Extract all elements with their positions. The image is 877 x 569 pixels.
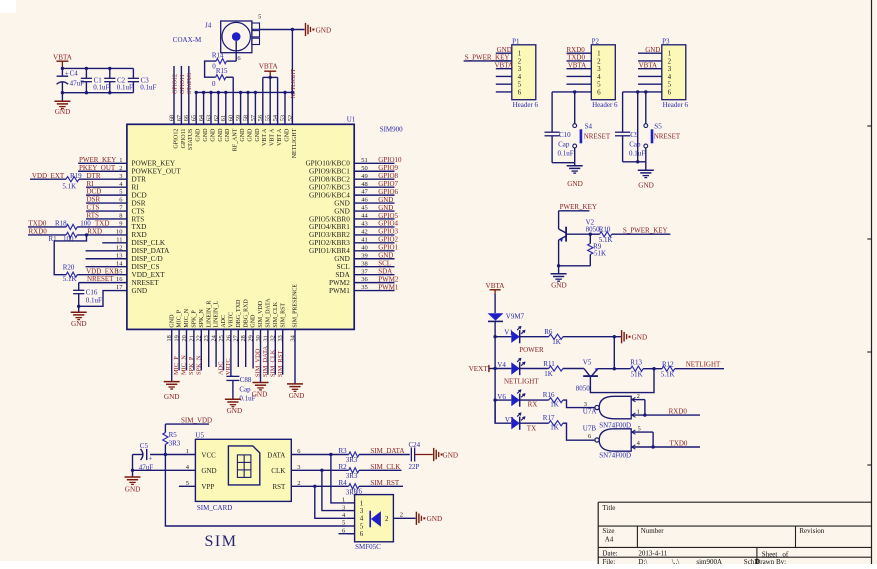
- svg-text:R2: R2: [339, 463, 348, 471]
- wire R16 to U7A output: [563, 400, 595, 408]
- wire emitter to ground rail: [613, 337, 615, 369]
- svg-text:GND: GND: [632, 334, 648, 342]
- capacitor C10 Cap 0.1uF: [545, 131, 560, 133]
- junction: [77, 305, 80, 308]
- ground pin18: [164, 381, 180, 383]
- capacitor C2 0.1uF: [109, 68, 111, 78]
- svg-text:Header 6: Header 6: [592, 101, 618, 109]
- svg-text:6: 6: [597, 88, 601, 96]
- wire J4 centre pin: [235, 41, 237, 61]
- resistor R20 5.1K to VDD_EXT pin15: [66, 272, 77, 277]
- ground below C88: [225, 398, 241, 400]
- resistor R5 3R3: [163, 433, 168, 445]
- svg-text:6: 6: [668, 88, 672, 96]
- svg-text:2: 2: [297, 480, 300, 487]
- svg-text:NRESET: NRESET: [584, 133, 611, 141]
- svg-text:GND: GND: [201, 467, 216, 475]
- junctions on GND bus: [195, 91, 198, 94]
- svg-text:0.1uF: 0.1uF: [140, 84, 156, 92]
- ground below C4: [61, 93, 63, 101]
- svg-text:V5: V5: [583, 359, 592, 367]
- ground below S4: [574, 163, 576, 166]
- svg-text:VEXT: VEXT: [469, 365, 489, 373]
- svg-text:1K: 1K: [544, 370, 553, 378]
- wire R9 to emitter: [559, 265, 591, 267]
- svg-text:SIM_RST: SIM_RST: [280, 303, 286, 328]
- svg-text:ADC: ADC: [221, 315, 227, 328]
- svg-text:Drawn By:: Drawn By:: [755, 558, 786, 564]
- svg-text:DTR: DTR: [132, 176, 147, 184]
- svg-text:RXD0: RXD0: [29, 227, 48, 235]
- svg-text:VBTA: VBTA: [495, 61, 514, 69]
- svg-text:SCL: SCL: [378, 260, 391, 268]
- svg-text:GPIO3: GPIO3: [378, 228, 398, 236]
- svg-text:GPIO5: GPIO5: [378, 212, 398, 220]
- svg-text:2: 2: [385, 515, 389, 523]
- svg-text:VDD_EXT: VDD_EXT: [132, 271, 166, 279]
- wire RF_ANT column pin 60: [232, 77, 234, 124]
- svg-text:NETLIGHT: NETLIGHT: [291, 69, 297, 99]
- svg-text:R14: R14: [212, 52, 224, 60]
- svg-text:PWM1: PWM1: [329, 287, 350, 295]
- svg-text:3R3: 3R3: [346, 456, 358, 464]
- wire to C10: [551, 92, 553, 132]
- svg-text:POWER: POWER: [519, 346, 544, 354]
- wire pin33 SIM_RST: [282, 329, 284, 374]
- svg-text:R20: R20: [63, 263, 75, 271]
- svg-text:DISP_C/D: DISP_C/D: [132, 255, 163, 263]
- svg-text:R4: R4: [339, 479, 348, 487]
- svg-text:STATUS: STATUS: [188, 129, 194, 151]
- ground pin34: [287, 383, 303, 385]
- svg-text:GND: GND: [378, 196, 393, 204]
- svg-text:C5: C5: [140, 442, 149, 450]
- svg-text:U7B: U7B: [583, 424, 597, 432]
- svg-text:Header 6: Header 6: [663, 101, 689, 109]
- svg-text:C10: C10: [559, 131, 571, 139]
- svg-text:DBG_TXD: DBG_TXD: [236, 299, 242, 328]
- svg-text:GPIO8/KBC2: GPIO8/KBC2: [309, 176, 350, 184]
- svg-text:GND: GND: [55, 108, 71, 116]
- SIM card holder U5: [195, 439, 291, 501]
- svg-text:GND: GND: [240, 128, 246, 142]
- resistor R2 3R3 SIM_CLK: [349, 468, 359, 473]
- wire C9 S5 bottom rail: [623, 161, 646, 163]
- svg-text:3: 3: [342, 504, 345, 511]
- svg-text:GND: GND: [252, 391, 268, 399]
- svg-text:GPIO2: GPIO2: [378, 236, 398, 244]
- ground below V2: [558, 266, 560, 274]
- power ground after C24: [433, 448, 435, 461]
- svg-text:SPK_P: SPK_P: [192, 310, 198, 328]
- wire R17 to U7B output: [563, 423, 595, 440]
- svg-text:RXD: RXD: [132, 231, 147, 239]
- svg-text:GPIO1: GPIO1: [378, 244, 398, 252]
- svg-text:GND: GND: [334, 255, 350, 263]
- svg-text:+: +: [65, 69, 69, 77]
- svg-text:GPIO2/KBR3: GPIO2/KBR3: [309, 239, 350, 247]
- wire GPIO12 pin 68 stub: [173, 66, 175, 124]
- wire pin25 ADC: [223, 329, 225, 370]
- junction: [636, 160, 639, 163]
- svg-text:Revision: Revision: [799, 527, 824, 535]
- svg-text:\..\: \..\: [672, 558, 679, 564]
- svg-text:47uF: 47uF: [70, 80, 85, 88]
- svg-text:CLK: CLK: [271, 467, 285, 475]
- resistor R17 1K: [520, 422, 549, 424]
- svg-text:TX: TX: [527, 424, 536, 432]
- svg-text:STATUS: STATUS: [187, 72, 193, 94]
- svg-text:TXD0: TXD0: [670, 439, 688, 447]
- wire pin23 stub: [208, 329, 210, 367]
- svg-text:3R3: 3R3: [169, 440, 181, 448]
- svg-text:V7: V7: [505, 416, 514, 424]
- svg-text:SN74F00D: SN74F00D: [599, 421, 631, 429]
- wire pin5 to pin4: [652, 432, 654, 447]
- wire SIM_VDD down to R5: [164, 424, 166, 432]
- svg-text:GND: GND: [251, 314, 257, 328]
- svg-text:POWER_KEY: POWER_KEY: [132, 160, 176, 168]
- junction: [589, 233, 592, 236]
- svg-text:SIM_RST: SIM_RST: [277, 351, 284, 377]
- resistor R12 5.1K: [662, 366, 675, 371]
- wire top GND pin stubs: [195, 92, 197, 124]
- svg-text:0.1uF: 0.1uF: [117, 84, 133, 92]
- svg-text:DISP_CS: DISP_CS: [132, 263, 160, 271]
- LED V4 NETLIGHT: [495, 368, 511, 370]
- wire DATA row pin6: [291, 454, 348, 456]
- svg-text:3R3: 3R3: [346, 472, 358, 480]
- svg-text:51K: 51K: [631, 370, 643, 378]
- svg-text:DISP_CLK: DISP_CLK: [132, 239, 166, 247]
- svg-text:DCD: DCD: [87, 188, 102, 196]
- svg-text:5: 5: [638, 425, 641, 432]
- svg-text:U7A: U7A: [583, 408, 597, 416]
- pin7 CTS stub: [86, 210, 127, 212]
- svg-text:P3: P3: [662, 37, 670, 45]
- resistor R6 1K: [520, 336, 549, 338]
- svg-text:NETLIGHT: NETLIGHT: [686, 360, 721, 368]
- junction: [320, 469, 323, 472]
- U6 pin2 wire to ground: [393, 517, 415, 519]
- wire pin17 GND: [79, 291, 127, 307]
- svg-text:2013-4-11: 2013-4-11: [638, 550, 667, 558]
- svg-text:LINEIN_L: LINEIN_L: [214, 301, 220, 328]
- net label TXD0 and resistor R18 100 pin9 TXD: [28, 226, 66, 228]
- svg-text:GND: GND: [203, 128, 209, 142]
- junction: [313, 485, 316, 488]
- svg-text:SPK_N: SPK_N: [199, 309, 205, 328]
- wire pin31 SIM_DATA: [267, 329, 269, 374]
- svg-text:SIM_DATA: SIM_DATA: [266, 298, 272, 328]
- svg-text:SIM_VDD: SIM_VDD: [181, 416, 212, 424]
- junction: [573, 90, 576, 93]
- svg-text:PWM2: PWM2: [329, 279, 350, 287]
- svg-text:MIC_P: MIC_P: [177, 309, 183, 327]
- svg-text:VDD_EXT: VDD_EXT: [32, 172, 65, 180]
- pin11 DISP_CLK stub: [102, 242, 127, 244]
- svg-text:5.1K: 5.1K: [62, 183, 76, 191]
- wire RXD to R20: [54, 235, 86, 275]
- junction: [61, 91, 64, 94]
- svg-text:S_PWER_KEY: S_PWER_KEY: [623, 226, 668, 234]
- net label S_PWER_KEY on P1.2: [464, 60, 512, 62]
- svg-text:SPK_N: SPK_N: [195, 355, 202, 375]
- svg-text:TXD: TXD: [95, 220, 109, 228]
- SIM card icon: [228, 446, 259, 485]
- pin8 RTS stub: [86, 218, 127, 220]
- TVS array U6 SMF05C: [355, 495, 394, 542]
- svg-text:RXD0: RXD0: [669, 407, 688, 415]
- wire pin32 SIM_CLK: [274, 329, 276, 374]
- svg-text:GND: GND: [71, 320, 87, 328]
- junction: [164, 453, 167, 456]
- U1 right pin wires: [354, 162, 394, 164]
- svg-text:SIM_DATA: SIM_DATA: [370, 447, 404, 455]
- switch S5 NRESET: [645, 92, 647, 124]
- svg-text:SIM_RST: SIM_RST: [370, 479, 400, 487]
- net label NRESET pin16: [79, 282, 127, 284]
- pin5 DCD stub: [86, 194, 127, 196]
- svg-text:GPIO10: GPIO10: [378, 156, 402, 164]
- svg-text:5: 5: [186, 480, 189, 487]
- power ground after U6: [415, 512, 417, 525]
- wire NRESET to C16: [78, 283, 80, 291]
- svg-text:1K: 1K: [552, 338, 561, 346]
- capacitor C1 0.1uF: [85, 68, 87, 78]
- capacitor C88 Cap 0.1uF: [226, 375, 239, 377]
- U7A input pin2 wire: [631, 399, 645, 401]
- resistor R16 1K: [520, 399, 549, 401]
- pin12 DISP_DATA stub: [86, 250, 127, 252]
- svg-text:GND: GND: [378, 204, 393, 212]
- wire pin29 stub: [252, 329, 254, 368]
- svg-text:V6: V6: [497, 393, 506, 401]
- wire pin19 MIC_P: [178, 329, 180, 370]
- svg-text:R12: R12: [662, 360, 674, 368]
- U7B input pin5 wire: [631, 431, 653, 433]
- wire VBT_A rail: [263, 76, 278, 78]
- svg-text:VRTC: VRTC: [225, 358, 232, 375]
- svg-text:GND: GND: [334, 207, 350, 215]
- svg-text:C16: C16: [86, 288, 98, 296]
- svg-text:DSR: DSR: [87, 196, 101, 204]
- svg-text:6: 6: [518, 88, 522, 96]
- wire VCC row: [133, 454, 144, 456]
- svg-text:MIC_N: MIC_N: [184, 308, 190, 327]
- svg-text:Number: Number: [641, 527, 665, 535]
- svg-text:DTR: DTR: [87, 172, 101, 180]
- svg-text:Size: Size: [602, 527, 614, 535]
- svg-text:R10: R10: [599, 226, 611, 234]
- svg-text:SIM_DATA: SIM_DATA: [262, 346, 269, 377]
- svg-text:R19: R19: [70, 172, 82, 180]
- svg-text:Cap: Cap: [558, 141, 570, 149]
- P1 pin stubs: [496, 52, 512, 54]
- resistor R13 51K: [631, 366, 644, 371]
- svg-text:SIM900: SIM900: [380, 125, 403, 133]
- wire pin22 SPK_N: [200, 329, 202, 370]
- svg-text:GND: GND: [316, 26, 332, 34]
- svg-text:PWM1: PWM1: [378, 283, 399, 291]
- svg-text:PWER_KEY: PWER_KEY: [560, 203, 597, 211]
- wire J4 shield to ground: [260, 29, 305, 31]
- svg-text:VBTA: VBTA: [53, 53, 73, 61]
- wire parallel branch: [637, 92, 639, 162]
- resistor R10 5.1K: [590, 233, 599, 235]
- ground below S5: [645, 162, 647, 170]
- svg-text:GND: GND: [164, 393, 180, 401]
- svg-text:0.1uF: 0.1uF: [558, 149, 574, 157]
- svg-text:RTS: RTS: [132, 215, 145, 223]
- pin13 DISP_C/D stub: [86, 258, 127, 260]
- svg-text:TXD: TXD: [132, 223, 147, 231]
- wire V2 base: [566, 233, 590, 235]
- resistor R15 0 ohm: [216, 75, 226, 80]
- junction: [329, 453, 332, 456]
- capacitor C16 0.1uF: [73, 289, 84, 291]
- net label SIM_VDD: [165, 423, 209, 425]
- wire RST to U6 pin4: [315, 486, 347, 518]
- svg-text:GPIO11: GPIO11: [181, 129, 187, 149]
- svg-text:GPIO7: GPIO7: [378, 180, 398, 188]
- svg-text:0.1uF: 0.1uF: [93, 84, 109, 92]
- svg-text:GND: GND: [225, 128, 231, 142]
- svg-text:GPIO10/KBC0: GPIO10/KBC0: [305, 160, 350, 168]
- wire P3.6 rail: [623, 91, 662, 93]
- svg-text:R1: R1: [49, 235, 58, 243]
- IC U1 SIM900 body: [127, 124, 354, 329]
- svg-text:GND: GND: [638, 182, 654, 190]
- resistor R14 0 ohm: [227, 60, 237, 62]
- sheet right border: [871, 0, 873, 564]
- svg-text:RF_ANT: RF_ANT: [233, 128, 239, 151]
- wire RST row pin2: [291, 485, 348, 487]
- capacitor C3 0.1uF: [132, 68, 134, 78]
- junction: [643, 413, 646, 416]
- wire top GND bus: [196, 91, 292, 93]
- junction on RXD: [85, 233, 88, 236]
- svg-text:J4: J4: [205, 22, 212, 30]
- wire pin21 SPK_P: [193, 329, 195, 370]
- svg-text:VBTA: VBTA: [639, 61, 658, 69]
- svg-text:GPIO12: GPIO12: [173, 129, 179, 149]
- junction: [557, 264, 560, 267]
- transistor V2 8050 PNP: [565, 227, 567, 242]
- svg-text:S5: S5: [654, 122, 662, 130]
- power ground GND top right: [305, 23, 307, 36]
- U6 left pin stubs: [347, 502, 355, 504]
- ground pin30: [253, 382, 269, 384]
- svg-text:S4: S4: [585, 122, 593, 130]
- svg-text:R17: R17: [543, 414, 555, 422]
- resistor R9 51K: [589, 234, 591, 243]
- svg-text:GND: GND: [645, 46, 660, 54]
- svg-text:GPIO7/KBC3: GPIO7/KBC3: [309, 183, 350, 191]
- connector J4 COAX-M: [221, 21, 252, 53]
- junction: [61, 67, 64, 70]
- ground below C5: [125, 476, 141, 478]
- svg-text:GPIO6: GPIO6: [378, 188, 398, 196]
- svg-text:R16: R16: [543, 391, 555, 399]
- svg-text:SIM_PRESENCE: SIM_PRESENCE: [293, 284, 299, 328]
- svg-text:C4: C4: [70, 70, 79, 78]
- svg-text:SN74F00D: SN74F00D: [599, 451, 631, 459]
- svg-text:C88: C88: [240, 376, 252, 384]
- svg-text:GND: GND: [169, 314, 175, 328]
- svg-text:A4: A4: [605, 536, 614, 544]
- pin6 DSR stub: [86, 202, 127, 204]
- wire pin18 GND: [171, 329, 173, 381]
- wire bottom rail: [62, 92, 133, 94]
- svg-text:SIM_VDD: SIM_VDD: [255, 348, 262, 377]
- wire GND row pin4: [133, 469, 196, 471]
- LED V7 TX: [495, 400, 511, 423]
- transistor V5 8050 NPN: [583, 375, 598, 377]
- junction: [613, 335, 616, 338]
- wire pin34 SIM_PRESENCE to ground: [294, 329, 296, 383]
- svg-text:GND: GND: [378, 252, 393, 260]
- svg-text:51K: 51K: [594, 249, 606, 257]
- svg-text:PWER_KEY: PWER_KEY: [79, 156, 116, 164]
- power ground after R6: [614, 336, 621, 338]
- wire LED rail: [494, 321, 496, 423]
- svg-text:V1: V1: [504, 329, 513, 337]
- junction: [291, 91, 294, 94]
- junction: [291, 28, 294, 31]
- svg-text:RI: RI: [87, 180, 95, 188]
- NAND gate U7B SN74F00D: [599, 429, 631, 451]
- junctions: [493, 335, 496, 338]
- svg-text:VBT A: VBT A: [270, 128, 276, 146]
- junction: [651, 445, 654, 448]
- resistor R11 1K: [520, 368, 549, 370]
- svg-text:GPIO8: GPIO8: [378, 172, 398, 180]
- svg-text:GPIO4: GPIO4: [378, 220, 398, 228]
- svg-text:GPIO11: GPIO11: [180, 74, 186, 94]
- svg-text:GND: GND: [284, 128, 290, 142]
- svg-text:R3: R3: [339, 447, 348, 455]
- svg-text:DBG_RXD: DBG_RXD: [243, 299, 249, 328]
- svg-text:0: 0: [212, 80, 216, 88]
- svg-text:DSR: DSR: [132, 199, 146, 207]
- svg-text:NETLIGHT: NETLIGHT: [292, 128, 298, 158]
- svg-text:VPP: VPP: [201, 483, 214, 491]
- svg-text:GND: GND: [132, 287, 148, 295]
- wire pin26 VRTC to C88: [230, 329, 232, 376]
- svg-text:GND: GND: [427, 515, 443, 523]
- svg-text:GND: GND: [255, 128, 261, 142]
- wire V5 base loop: [590, 369, 654, 393]
- svg-text:VBT A: VBT A: [262, 128, 268, 146]
- svg-text:VBTA: VBTA: [568, 61, 587, 69]
- net label PWER_KEY pin1: [78, 162, 127, 164]
- svg-text:GND: GND: [210, 128, 216, 142]
- wire GPIO11 pin 67 stub: [180, 66, 182, 124]
- wire CLK row pin3: [291, 469, 348, 471]
- wire NETLIGHT column pin 52: [291, 30, 293, 125]
- wire pin28 stub: [245, 329, 247, 367]
- connector P2 Header 6: [591, 45, 615, 100]
- svg-text:SIM: SIM: [205, 533, 238, 550]
- svg-text:GND: GND: [125, 486, 141, 494]
- svg-text:VDD_EXB: VDD_EXB: [86, 267, 119, 275]
- svg-text:22P: 22P: [409, 463, 420, 471]
- svg-text:SIM_CLK: SIM_CLK: [273, 301, 279, 327]
- svg-text:GPIO9: GPIO9: [378, 164, 398, 172]
- svg-text:1: 1: [342, 497, 345, 504]
- svg-text:GND: GND: [196, 128, 202, 142]
